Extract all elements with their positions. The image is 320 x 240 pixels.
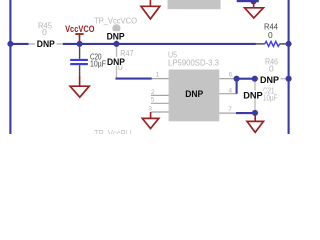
svg-text:DNP: DNP xyxy=(185,88,203,99)
svg-text:LP5900SD-3.3: LP5900SD-3.3 xyxy=(168,57,219,67)
svg-text:TP_VccPLL: TP_VccPLL xyxy=(94,129,134,134)
svg-text:6: 6 xyxy=(229,72,233,79)
svg-text:DNP: DNP xyxy=(107,56,125,67)
svg-text:10µF: 10µF xyxy=(90,59,106,69)
svg-text:0: 0 xyxy=(42,27,47,37)
svg-text:DNP: DNP xyxy=(107,31,125,42)
svg-text:2: 2 xyxy=(151,89,155,96)
svg-text:DNP: DNP xyxy=(37,38,55,49)
svg-text:10µF: 10µF xyxy=(263,92,278,102)
svg-text:7: 7 xyxy=(228,106,232,113)
svg-text:0: 0 xyxy=(268,30,273,40)
svg-text:4: 4 xyxy=(229,87,233,94)
svg-text:3: 3 xyxy=(148,106,152,113)
svg-text:0: 0 xyxy=(269,63,274,73)
svg-text:5: 5 xyxy=(151,97,155,104)
svg-text:DNP: DNP xyxy=(243,89,263,100)
svg-text:DNP: DNP xyxy=(260,74,279,85)
svg-text:TP_VccVCO: TP_VccVCO xyxy=(94,15,137,25)
svg-text:1: 1 xyxy=(156,71,160,78)
svg-text:VccVCO: VccVCO xyxy=(65,24,94,34)
